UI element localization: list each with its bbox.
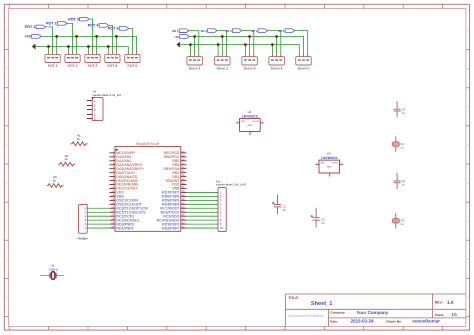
svg-text:POT 1: POT 1 [48, 64, 58, 68]
wire POT 3 gnd drop [87, 47, 89, 53]
svg-text:4: 4 [113, 162, 115, 165]
header P11 Header-Male-2.54_1x10 [216, 180, 246, 231]
junction POT 3 gnd [87, 45, 90, 48]
svg-text:C: C [467, 106, 469, 108]
svg-text:8: 8 [113, 178, 115, 181]
svg-text:22: 22 [182, 222, 185, 225]
potentiometer connector POT 1 [45, 52, 60, 68]
svg-text:A: A [467, 30, 469, 32]
svg-text:Drawn By:: Drawn By: [387, 320, 402, 323]
svg-text:C3: C3 [402, 108, 406, 111]
svg-text:11: 11 [111, 190, 114, 193]
svg-text:POT 5: POT 5 [108, 27, 119, 31]
svg-text:RE0/RD/AN5: RE0/RD/AN5 [116, 179, 137, 183]
wire chip pin 22 to P11 pin 9 [186, 223, 218, 225]
wire chip pin 30 to P11 pin 1 [186, 191, 218, 193]
svg-text:VSS: VSS [116, 195, 123, 199]
svg-text:RE2/CS/AN7: RE2/CS/AN7 [116, 187, 137, 191]
capacitor C6 1u [392, 213, 404, 228]
svg-text:23: 23 [182, 218, 185, 221]
wire POT 4 signal [109, 25, 113, 52]
svg-text:1.0: 1.0 [447, 300, 454, 305]
svg-text:RD0/PSP0: RD0/PSP0 [116, 222, 134, 226]
svg-text:RA3/AN3/VREF+: RA3/AN3/VREF+ [116, 167, 144, 171]
svg-text:RD7/PSP7: RD7/PSP7 [162, 191, 180, 195]
wire chip pin 29 to P11 pin 2 [186, 195, 218, 197]
svg-text:SR 4: SR 4 [251, 30, 257, 33]
wire servo 3 gnd drop [244, 45, 246, 55]
wire POT 1 gnd drop [48, 47, 50, 53]
wire chip pin 15 to header [87, 207, 109, 209]
wire servo 3 +5V drop [249, 37, 251, 55]
svg-text:6: 6 [85, 207, 87, 210]
svg-text:POT 4: POT 4 [108, 64, 118, 68]
svg-text:POT 5: POT 5 [128, 64, 138, 68]
microcontroller U1 PIC16F877A-I/P [109, 142, 186, 231]
voltage regulator U2 LM7805CS [236, 111, 264, 135]
svg-text:H: H [6, 296, 8, 298]
svg-text:2: 2 [251, 132, 252, 134]
junction POT 4 gnd [107, 45, 110, 48]
servo connector Servo 5 [296, 55, 311, 71]
svg-text:LM7805CS: LM7805CS [321, 156, 337, 160]
svg-text:VIN: VIN [320, 162, 324, 164]
wire servo 2 signal [217, 31, 226, 55]
svg-text:4: 4 [85, 215, 87, 218]
svg-text:E: E [467, 182, 469, 184]
svg-text:Header-Male-2.54_1x10: Header-Male-2.54_1x10 [216, 183, 246, 186]
svg-text:OSC1/CLKIN: OSC1/CLKIN [116, 199, 137, 203]
net label SR 5 [278, 29, 295, 33]
wire chip pin 23 to P11 pin 8 [186, 219, 218, 221]
svg-text:R2: R2 [65, 155, 69, 158]
wire +5V rail (pot section) [41, 36, 136, 52]
svg-text:REV:: REV: [435, 301, 443, 305]
svg-text:3: 3 [85, 219, 87, 222]
wire POT 2 +5V drop [76, 36, 78, 52]
svg-text:RC7/RX/DT: RC7/RX/DT [160, 207, 179, 211]
svg-text:39: 39 [182, 154, 185, 157]
capacitor C3 1u [394, 101, 406, 117]
voltage regulator U3 LM7805CS [315, 152, 343, 176]
net label SR 3 [225, 29, 242, 33]
svg-text:1u: 1u [400, 223, 403, 226]
wire POT 2 signal [67, 23, 73, 52]
svg-text:37: 37 [182, 162, 185, 165]
svg-text:3: 3 [262, 120, 263, 122]
svg-text:29: 29 [182, 194, 185, 197]
wire POT 3 +5V drop [96, 36, 98, 52]
svg-text:21: 21 [182, 225, 185, 228]
svg-text:40: 40 [182, 150, 185, 153]
wire chip pin 16 to header [87, 211, 109, 213]
svg-text:RA1/AN1: RA1/AN1 [116, 159, 131, 163]
resistor R3 1k [47, 176, 64, 188]
svg-text:Servo 4: Servo 4 [271, 67, 283, 71]
svg-text:13: 13 [111, 198, 114, 201]
svg-text:31: 31 [182, 186, 185, 189]
svg-text:RC2/CCP1: RC2/CCP1 [116, 215, 134, 219]
svg-text:10: 10 [220, 227, 223, 230]
power flag +5V (pot section) [24, 35, 41, 39]
svg-text:RA2/AN2/VREF-: RA2/AN2/VREF- [116, 163, 143, 167]
svg-text:MCLR/VPP: MCLR/VPP [116, 151, 135, 155]
net label POT 5 [108, 27, 129, 31]
svg-text:1/1: 1/1 [451, 313, 457, 318]
svg-text:RD6/PSP6: RD6/PSP6 [162, 195, 180, 199]
wire POT 4 gnd drop [107, 47, 109, 53]
svg-text:SR 2: SR 2 [201, 30, 207, 33]
wire chip pin 17 to header [87, 215, 109, 217]
potentiometer connector POT 3 [85, 52, 100, 68]
svg-text:16: 16 [111, 210, 114, 213]
svg-text:POT 3: POT 3 [68, 17, 79, 21]
svg-text:VSS: VSS [172, 187, 179, 191]
svg-text:VOUT: VOUT [332, 162, 338, 164]
svg-text:36: 36 [182, 166, 185, 169]
svg-text:1: 1 [237, 120, 238, 122]
svg-text:VDD: VDD [172, 183, 180, 187]
resistor R2 1k [58, 155, 75, 167]
svg-text:Servo 2: Servo 2 [216, 67, 228, 71]
svg-text:33: 33 [182, 178, 185, 181]
net label SR 1 [172, 29, 189, 33]
svg-text:RE1/WR/AN6: RE1/WR/AN6 [116, 183, 138, 187]
wire chip pin 26 to P11 pin 5 [186, 207, 218, 209]
wire servo 3 signal [242, 31, 254, 55]
ground arrow (pot section) [32, 44, 36, 50]
svg-text:7: 7 [220, 215, 222, 218]
wire ground rail (servo section) [180, 45, 299, 55]
svg-text:A: A [6, 30, 8, 32]
svg-text:VDD: VDD [116, 191, 124, 195]
svg-text:RC3/SCK/SCL: RC3/SCK/SCL [116, 218, 140, 222]
svg-text:RD1/PSP1: RD1/PSP1 [116, 226, 134, 230]
wire chip pin 20 to header [87, 227, 109, 229]
capacitor C5 1u [394, 173, 406, 189]
svg-text:28: 28 [182, 198, 185, 201]
svg-text:20: 20 [111, 225, 114, 228]
wire servo 1 gnd drop [189, 45, 191, 55]
wire chip pin 27 to P11 pin 4 [186, 203, 218, 205]
svg-text:RD2/PSP2: RD2/PSP2 [162, 226, 180, 230]
svg-text:RD5/PSP5: RD5/PSP5 [162, 199, 180, 203]
svg-text:Your Company: Your Company [357, 310, 389, 315]
svg-text:Sheet:: Sheet: [435, 313, 444, 316]
svg-text:6: 6 [220, 211, 222, 214]
svg-text:F: F [467, 220, 468, 222]
svg-text:8: 8 [220, 219, 222, 222]
svg-text:F: F [6, 220, 7, 222]
svg-text:E: E [6, 182, 8, 184]
svg-text:Servo 5: Servo 5 [298, 67, 310, 71]
svg-text:Header: Header [78, 237, 89, 241]
svg-text:U2: U2 [248, 111, 252, 114]
net label POT 1 [25, 25, 46, 29]
svg-text:10: 10 [111, 186, 114, 189]
svg-text:2: 2 [330, 174, 331, 176]
wire +5V rail (servo section) [189, 37, 303, 55]
svg-text:D: D [6, 144, 8, 146]
svg-text:1u: 1u [321, 222, 324, 225]
title block [286, 294, 466, 326]
svg-text:25: 25 [182, 210, 185, 213]
svg-text:4: 4 [94, 113, 96, 117]
servo connector Servo 1 [187, 55, 202, 71]
svg-text:Date:: Date: [330, 320, 338, 323]
junction POT 1 gnd [47, 45, 50, 48]
svg-text:18: 18 [111, 218, 114, 221]
svg-text:RD4/PSP4: RD4/PSP4 [162, 203, 180, 207]
junction servo 2 +5V [221, 35, 224, 38]
svg-text:1u: 1u [283, 209, 286, 212]
svg-text:+5V: +5V [24, 35, 31, 39]
svg-text:1k: 1k [77, 138, 80, 141]
wire chip pin 28 to P11 pin 3 [186, 199, 218, 201]
capacitor C1 1u [272, 195, 286, 215]
svg-text:G: G [467, 258, 469, 260]
svg-text:suneelkumar: suneelkumar [412, 319, 440, 324]
junction POT 2 gnd [67, 45, 70, 48]
servo connector Servo 4 [269, 55, 284, 71]
svg-text:+5v: +5v [174, 36, 179, 39]
svg-text:Servo 1: Servo 1 [189, 67, 201, 71]
svg-text:RB1: RB1 [172, 175, 179, 179]
svg-text:19: 19 [111, 222, 114, 225]
svg-text:1: 1 [316, 162, 317, 164]
net label POT 2 [46, 22, 67, 26]
svg-text:RA4/T0CKI: RA4/T0CKI [116, 171, 134, 175]
svg-text:VOUT: VOUT [253, 120, 259, 122]
svg-text:1u: 1u [400, 146, 403, 149]
svg-text:3: 3 [341, 162, 342, 164]
svg-text:RC0/T1OSO/T1CKI: RC0/T1OSO/T1CKI [116, 207, 148, 211]
svg-text:VIN: VIN [241, 120, 245, 122]
svg-text:SR 1: SR 1 [172, 30, 178, 33]
svg-text:RB5: RB5 [172, 159, 179, 163]
crystal X1 12MHz [40, 264, 64, 279]
wire servo 4 gnd drop [271, 45, 273, 55]
wire chip pin 25 to P11 pin 6 [186, 211, 218, 213]
svg-text:2: 2 [85, 223, 87, 226]
svg-text:1u: 1u [402, 183, 405, 186]
svg-text:G: G [6, 258, 8, 260]
svg-text:RA5/AN4/SS: RA5/AN4/SS [116, 175, 137, 179]
svg-text:14: 14 [111, 202, 114, 205]
svg-text:C1: C1 [283, 205, 287, 208]
svg-text:SR 5: SR 5 [278, 30, 284, 33]
svg-text:RB6/PGC: RB6/PGC [164, 155, 180, 159]
junction POT 4 +5V [115, 35, 118, 38]
svg-text:X1: X1 [51, 264, 55, 267]
wire chip pin 18 to header [87, 219, 109, 221]
svg-text:RC4/SDI/SDA: RC4/SDI/SDA [157, 218, 180, 222]
junction POT 2 +5V [75, 35, 78, 38]
svg-text:34: 34 [182, 174, 185, 177]
wire servo 4 +5V drop [276, 37, 278, 55]
svg-text:2019-03-24: 2019-03-24 [351, 319, 374, 324]
wire chip pin 21 to P11 pin 10 [186, 227, 218, 229]
svg-text:B: B [467, 68, 469, 70]
net label POT 4 [88, 24, 109, 28]
net label SR 4 [251, 29, 268, 33]
svg-text:GND: GND [327, 166, 332, 168]
svg-text:eda.easyeda.com/user/suneelkum: eda.easyeda.com/user/suneelkumar [288, 315, 324, 317]
svg-text:C2: C2 [321, 218, 325, 221]
net label POT 3 [68, 17, 89, 21]
svg-text:RB7/PGD: RB7/PGD [164, 151, 180, 155]
svg-text:RB0/INT: RB0/INT [166, 179, 180, 183]
capacitor C2 1u [311, 208, 325, 228]
svg-text:1u: 1u [402, 112, 405, 115]
wire POT 4 +5V drop [116, 36, 118, 52]
svg-text:2: 2 [220, 195, 222, 198]
net label SR 2 [201, 29, 218, 33]
svg-text:2: 2 [113, 154, 115, 157]
svg-text:RB2: RB2 [172, 171, 179, 175]
wire chip pin 19 to header [87, 223, 109, 225]
svg-text:RA0/AN0: RA0/AN0 [116, 155, 131, 159]
junction servo 1 gnd [189, 43, 192, 46]
junction POT 3 +5V [95, 35, 98, 38]
svg-text:POT 2: POT 2 [46, 22, 57, 26]
servo connector Servo 3 [242, 55, 257, 71]
svg-text:H: H [467, 296, 469, 298]
potentiometer connector POT 5 [125, 52, 140, 68]
svg-text:TITLE:: TITLE: [288, 296, 299, 300]
ground arrow (servo section) [176, 42, 180, 48]
wire POT 2 gnd drop [67, 47, 69, 53]
svg-text:LM7805CS: LM7805CS [242, 115, 258, 119]
wire ground rail (pot section) [35, 47, 128, 53]
svg-text:OSC2/CLKOUT: OSC2/CLKOUT [116, 203, 141, 207]
svg-text:35: 35 [182, 170, 185, 173]
power flag +5V (servo section) [174, 35, 189, 39]
junction servo 3 +5V [248, 35, 251, 38]
svg-text:C: C [6, 106, 8, 108]
svg-text:R3: R3 [53, 176, 57, 179]
svg-text:3: 3 [220, 199, 222, 202]
svg-text:1: 1 [220, 191, 222, 194]
svg-text:RC6/TX/CK: RC6/TX/CK [161, 211, 180, 215]
svg-text:B: B [6, 68, 8, 70]
svg-text:Servo 3: Servo 3 [244, 67, 256, 71]
svg-text:1: 1 [94, 99, 96, 103]
junction servo 3 gnd [244, 43, 247, 46]
potentiometer connector POT 4 [105, 52, 120, 68]
servo connector Servo 2 [215, 55, 230, 71]
svg-text:3: 3 [94, 108, 96, 112]
header (6-pin) [78, 204, 89, 240]
svg-text:1k: 1k [65, 158, 68, 161]
capacitor C4 1u [392, 137, 404, 152]
svg-text:9: 9 [220, 223, 222, 226]
svg-text:15: 15 [111, 206, 114, 209]
svg-text:U3: U3 [327, 152, 331, 155]
svg-text:1: 1 [85, 227, 87, 230]
svg-text:9: 9 [113, 182, 115, 185]
wire servo 1 +5V drop [194, 37, 196, 55]
resistor R1 1k [71, 134, 88, 146]
svg-text:5: 5 [220, 207, 222, 210]
svg-text:C5: C5 [402, 180, 406, 183]
svg-text:Company:: Company: [330, 311, 345, 314]
wire servo 1 signal [189, 31, 199, 55]
svg-text:4: 4 [220, 203, 222, 206]
svg-text:12: 12 [111, 194, 114, 197]
svg-text:7: 7 [113, 174, 115, 177]
svg-text:POT 4: POT 4 [88, 24, 99, 28]
svg-text:RC5/SDO: RC5/SDO [163, 215, 179, 219]
svg-text:32: 32 [182, 182, 185, 185]
wire chip pin 24 to P11 pin 7 [186, 215, 218, 217]
svg-text:RB4: RB4 [172, 163, 179, 167]
svg-text:3: 3 [113, 158, 115, 161]
header H1 Header-Male-2.54_1x5 [87, 90, 121, 120]
svg-text:POT 1: POT 1 [25, 25, 36, 29]
svg-text:GND: GND [247, 124, 252, 126]
junction servo 4 +5V [275, 35, 278, 38]
svg-text:POT 2: POT 2 [68, 64, 78, 68]
svg-text:5: 5 [94, 117, 96, 121]
svg-text:5: 5 [85, 211, 87, 214]
svg-text:Header-Male-2.54_1x5: Header-Male-2.54_1x5 [93, 94, 122, 97]
svg-text:12MHz: 12MHz [49, 268, 59, 271]
svg-text:P11: P11 [216, 180, 221, 183]
wire servo 5 signal [295, 31, 308, 55]
svg-text:27: 27 [182, 202, 185, 205]
svg-text:2: 2 [94, 104, 96, 108]
svg-text:26: 26 [182, 206, 185, 209]
junction POT 1 +5V [55, 35, 58, 38]
junction servo 2 gnd [217, 43, 220, 46]
svg-text:RB3/PGM: RB3/PGM [163, 167, 179, 171]
svg-text:38: 38 [182, 158, 185, 161]
wire POT 1 +5V drop [56, 36, 58, 52]
wire POT 5 signal [129, 28, 133, 52]
wire POT 1 signal [46, 27, 53, 52]
svg-text:C6: C6 [400, 219, 404, 222]
svg-text:30: 30 [182, 190, 185, 193]
svg-text:RC1/T1OSI/CCP2: RC1/T1OSI/CCP2 [116, 211, 145, 215]
wire servo 4 signal [268, 31, 281, 55]
svg-text:R1: R1 [77, 134, 81, 137]
svg-text:1k: 1k [53, 179, 56, 182]
svg-text:Sheet_1: Sheet_1 [311, 301, 333, 307]
svg-text:1: 1 [113, 150, 115, 153]
wire servo 2 gnd drop [217, 45, 219, 55]
svg-text:5: 5 [113, 166, 115, 169]
svg-text:17: 17 [111, 214, 114, 217]
svg-text:H1: H1 [93, 90, 97, 93]
svg-text:24: 24 [182, 214, 185, 217]
potentiometer connector POT 2 [65, 52, 80, 68]
svg-text:PIC16F877A-I/P: PIC16F877A-I/P [136, 142, 159, 146]
svg-text:POT 3: POT 3 [88, 64, 98, 68]
junction servo 1 +5V [193, 35, 196, 38]
junction servo 4 gnd [271, 43, 274, 46]
svg-text:D: D [467, 144, 469, 146]
svg-text:C4: C4 [400, 143, 404, 146]
wire servo 2 +5V drop [221, 37, 223, 55]
wire POT 3 signal [89, 19, 92, 52]
svg-text:RD3/PSP3: RD3/PSP3 [162, 222, 180, 226]
svg-text:6: 6 [113, 170, 115, 173]
